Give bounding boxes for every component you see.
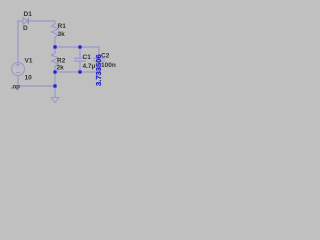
- svg-text:3k: 3k: [58, 31, 66, 38]
- svg-text:R2: R2: [57, 58, 66, 65]
- svg-text:2k: 2k: [57, 65, 65, 72]
- svg-text:3.733506: 3.733506: [94, 54, 103, 86]
- svg-text:V1: V1: [25, 58, 33, 65]
- svg-text:10: 10: [25, 75, 33, 82]
- svg-text:D: D: [23, 25, 28, 32]
- svg-text:100n: 100n: [101, 62, 116, 69]
- svg-text:C1: C1: [83, 54, 92, 61]
- svg-text:D1: D1: [24, 11, 33, 18]
- svg-text:.op: .op: [11, 84, 20, 91]
- svg-text:R1: R1: [58, 23, 67, 30]
